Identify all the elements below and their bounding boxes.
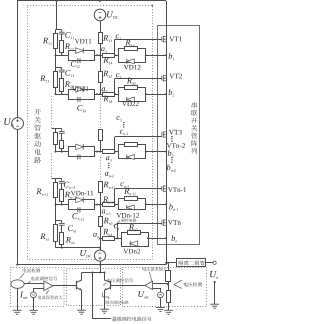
resistor Rn4 box xyxy=(103,237,115,241)
junction dot riser n xyxy=(117,238,119,240)
wire stage n top split xyxy=(56,220,62,222)
junction dot top rail / UDC bus xyxy=(99,0,101,2)
label C12 xyxy=(71,61,80,68)
label R11 xyxy=(43,38,52,45)
wire divider to ground xyxy=(168,302,170,310)
junction dot loop2 exit 2 xyxy=(145,93,147,95)
label b1 xyxy=(169,53,175,60)
bjt right bar xyxy=(110,281,112,290)
label c_n xyxy=(114,224,119,229)
wire Rn2 bottom xyxy=(61,245,63,248)
wire gate riser c3 xyxy=(114,137,116,152)
clamp loop R35/VD32 frame xyxy=(119,145,146,159)
wire b3 to chain xyxy=(146,151,166,153)
label b_n-1 xyxy=(169,204,178,211)
capacitor C22 on loop xyxy=(77,97,79,102)
resistor R12 box xyxy=(60,41,64,53)
wire op1 out to BJT base xyxy=(53,285,77,287)
wire stage n riser xyxy=(55,205,57,221)
mosfet VT3 xyxy=(161,132,163,137)
wire b_n to chain xyxy=(148,238,166,240)
source circle Iset xyxy=(31,292,37,298)
resistor Rn3 box xyxy=(99,217,103,227)
ground divider xyxy=(164,309,173,311)
label VD11 xyxy=(75,39,92,44)
label b_n-2 xyxy=(167,165,176,172)
label Rn4 xyxy=(103,229,112,236)
wire R31 top stub xyxy=(55,129,57,133)
ellipsis dots c-column xyxy=(123,122,124,123)
junction dot R21 bottom xyxy=(55,93,57,95)
label VTn-2 xyxy=(167,143,185,148)
ground bjt left xyxy=(77,309,86,311)
diode VD22 xyxy=(127,97,135,102)
junction dot R11 bottom xyxy=(55,54,57,56)
terminal circle output xyxy=(213,261,216,264)
leader 制动调控电路 xyxy=(102,293,109,300)
wire gate line VTn-1 xyxy=(115,188,162,190)
opamp current error xyxy=(44,281,53,290)
resistor divider upper box xyxy=(166,271,171,282)
wire node line mid stagen-1 xyxy=(94,204,102,206)
wire UDC top to R13 xyxy=(100,21,102,33)
arrow 电压检测 xyxy=(174,280,182,288)
clamp loop VDn2 frame xyxy=(122,233,149,247)
label VDn-12 xyxy=(116,213,138,218)
wire divider mid xyxy=(168,282,170,291)
wire R24 to riser xyxy=(115,94,119,96)
diode loop VD21 frame xyxy=(69,90,95,100)
wire chain to isolation xyxy=(166,245,168,265)
junction dot UDC rail xyxy=(99,264,101,266)
junction dot bn-1 xyxy=(165,203,167,205)
label c2 xyxy=(116,73,121,78)
solid box series switch array xyxy=(158,26,200,245)
label b3 xyxy=(168,150,174,157)
isolation diode box 隔离二极管 xyxy=(177,259,206,267)
label VDn2 xyxy=(123,249,140,254)
junction dot stage n bottom bus xyxy=(99,247,101,249)
ground Uset xyxy=(156,307,165,309)
wire gate line VT1 xyxy=(115,39,162,41)
vertical label 开关管驱动电路 xyxy=(34,109,41,164)
leader 电压误差放大 xyxy=(149,272,151,281)
junction dot b3 xyxy=(165,151,167,153)
mosfet VT2 xyxy=(161,76,163,81)
leader 电流误差放大 xyxy=(46,290,49,294)
junction dot base bus xyxy=(92,272,94,274)
junction dot c3 riser xyxy=(114,151,116,153)
label Rn1 xyxy=(40,234,49,241)
bjt right collector xyxy=(105,273,111,283)
capacitor Cn1 xyxy=(59,222,65,224)
wire cap to Rn-12 xyxy=(61,183,63,190)
wire cap to R32 xyxy=(61,133,63,140)
ground bjt right xyxy=(100,308,109,310)
label Rn3 xyxy=(104,218,113,225)
capacitor C12 on loop xyxy=(77,58,79,63)
wire cap branch stub top stage1 xyxy=(61,30,63,32)
label c3 xyxy=(116,116,121,121)
wire gate riser cn-1 xyxy=(114,189,116,205)
wire cap stub stage n xyxy=(61,221,63,223)
diode VDn-11 xyxy=(76,197,84,203)
junction dot c1 riser xyxy=(114,54,116,56)
wire b1 to chain xyxy=(146,55,166,57)
label c1 xyxy=(116,34,121,39)
label a3 xyxy=(106,156,112,161)
label 电流检测 xyxy=(23,268,40,272)
current sense ellipse xyxy=(11,280,24,289)
resistor R11 box xyxy=(54,34,58,49)
capacitor C11 xyxy=(59,31,65,33)
wire node line left stage1 xyxy=(56,55,69,57)
ellipsis dots VT-column xyxy=(171,136,172,137)
wire sense to op1+ xyxy=(24,283,44,285)
wire op2+ to divider xyxy=(153,283,168,285)
wire Rn1 bottom xyxy=(55,241,57,248)
label Uset xyxy=(138,291,148,298)
junction dot b2 xyxy=(165,93,167,95)
label R(n-1)2 xyxy=(65,192,77,199)
wire R21 top stub xyxy=(55,68,57,72)
label c_n-1 xyxy=(120,182,128,187)
resistor R15 box xyxy=(125,47,138,51)
bjt right emitter xyxy=(105,288,111,310)
clamp loop R15/VD12 frame xyxy=(119,49,146,63)
junction dot divider top xyxy=(167,262,169,264)
wire R11 top stub xyxy=(55,30,57,34)
label VD21 xyxy=(72,86,89,91)
clamp loop R25/VD22 frame xyxy=(119,88,146,102)
wire ellipse to ground xyxy=(17,288,19,310)
label C11 xyxy=(65,32,74,39)
wire gate riser c2 xyxy=(114,78,116,94)
wire op2 out to BJT base xyxy=(111,285,145,287)
diode VDn-12 xyxy=(127,205,135,210)
wire R21 bottom stub xyxy=(55,87,57,94)
wire divider top xyxy=(168,263,170,271)
resistor R21 box xyxy=(54,72,58,88)
junction dot stage n bottom xyxy=(61,247,63,249)
label R22 xyxy=(65,81,74,88)
wire UDC bus a_n-1 to Rn3 xyxy=(100,205,102,216)
dotted ellipsis riser stage3 xyxy=(51,96,53,129)
label VD12 xyxy=(124,65,141,70)
junction dot R32 bottom xyxy=(61,151,63,153)
label C(n-1)1 xyxy=(64,182,76,189)
label R23 xyxy=(103,71,112,78)
wire VT drain chain xyxy=(166,1,168,263)
wire b2 to chain xyxy=(146,94,166,96)
label 电压调控信号 xyxy=(107,278,133,282)
wire UDC bus a1-R23 xyxy=(100,55,102,71)
resistor divider lower box xyxy=(167,291,171,303)
wire R23 to a2 xyxy=(100,82,102,94)
dotted box current control xyxy=(11,268,65,307)
junction dot loop1 exit stage3 xyxy=(96,151,98,153)
resistor R25 box xyxy=(125,86,138,90)
wire R12 bottom stub xyxy=(61,52,63,55)
label R13 xyxy=(103,35,112,42)
label VD22 xyxy=(122,101,139,106)
leader 电流检测 xyxy=(20,273,25,278)
label c_n-2 xyxy=(120,130,128,135)
diode VD32 xyxy=(127,155,135,160)
junction dot collector right xyxy=(104,272,106,274)
label Rn5 xyxy=(129,224,138,231)
wire Uset to ground xyxy=(160,298,162,308)
wire Rn-11 top stub xyxy=(55,179,57,183)
wire Iset to op1- xyxy=(34,289,44,293)
wire stage1 feed from rail xyxy=(56,1,58,30)
wire gate line VT3 xyxy=(115,136,162,138)
wire Rn-14 to riser xyxy=(115,204,119,206)
mosfet VTn-1 xyxy=(161,186,163,191)
label UDC top xyxy=(107,11,118,19)
diode VD21 xyxy=(76,87,84,93)
resistor R35 box xyxy=(125,143,138,147)
ground left rail xyxy=(13,309,22,311)
mosfet VT1 xyxy=(161,37,163,42)
wire isolation out xyxy=(206,262,213,264)
resistor Rn2 box xyxy=(60,233,64,245)
label 电流调控信号 xyxy=(31,276,57,280)
junction dot loop1 exit stage2 xyxy=(96,93,98,95)
wire left input rail lower xyxy=(17,129,19,264)
label VTn-1 xyxy=(168,187,186,192)
wire Rn1 top stub xyxy=(55,221,57,225)
label 调控电路 small xyxy=(121,219,137,223)
dotted ellipsis riser stagen-1 xyxy=(51,154,53,179)
junction dot a1 xyxy=(99,54,101,56)
wire R14 to riser xyxy=(115,55,119,57)
dotted box base drive xyxy=(67,269,121,306)
wire cap branch stub top stagen-1 xyxy=(61,179,63,181)
label 隔离二极管 xyxy=(179,261,205,266)
leader 电压调控信号 xyxy=(103,283,106,286)
wire node line left stage2 xyxy=(56,94,69,96)
wire UDC feed to collector line xyxy=(100,265,102,273)
diode VD12 xyxy=(127,59,135,64)
label C(n-1)2 xyxy=(72,213,84,220)
wire cap branch stub top stage3 xyxy=(61,129,63,131)
ellipsis dots b-column xyxy=(171,157,172,158)
opamp voltage error xyxy=(145,281,153,289)
junction dot R31 bottom xyxy=(55,151,57,153)
wire stage2 top split xyxy=(56,67,62,69)
wire stagen-1 top split xyxy=(52,178,62,180)
diode VDn2 xyxy=(130,241,138,247)
wire stage3 top split xyxy=(52,128,62,130)
junction dot cn-1 riser xyxy=(114,204,116,206)
resistor R14 box xyxy=(103,54,115,58)
label R12 xyxy=(65,43,74,50)
wire cap to R22 xyxy=(61,72,63,79)
wire node line mid stage2 xyxy=(94,94,102,96)
resistor Rn1 box xyxy=(54,225,58,242)
label 电压检测 xyxy=(184,282,202,286)
resistor R23 box xyxy=(99,72,103,83)
resistor R13 box xyxy=(99,33,103,44)
wire top rail xyxy=(17,0,166,2)
junction dot loop1 exit stage1 xyxy=(96,54,98,56)
junction dot R22 bottom xyxy=(61,93,63,95)
label a1 xyxy=(101,47,107,52)
leader 电流调控信号 xyxy=(28,281,31,284)
label R24 xyxy=(103,96,112,103)
ellipsis dots a-column xyxy=(108,163,109,164)
label 电压误差放大 xyxy=(143,267,168,271)
junction dot Rn-11 bottom xyxy=(55,204,57,206)
wire R33 to a3 xyxy=(100,141,102,152)
label 基极调控电路信号 xyxy=(112,317,152,322)
wire node line left stage3 xyxy=(56,151,69,153)
label R21 xyxy=(40,75,49,82)
wire a_n to UDC bottom xyxy=(100,227,102,250)
wire op2- to Uset xyxy=(153,289,161,293)
junction dot loop1 exit stagen-1 xyxy=(96,204,98,206)
diode loop VD31 frame xyxy=(69,147,95,157)
resistor R33 box xyxy=(99,130,103,141)
wire R11 bottom stub xyxy=(55,48,57,55)
wire R22 bottom stub xyxy=(61,91,63,94)
resistor R32 box xyxy=(60,141,64,149)
bjt left emitter xyxy=(77,288,82,311)
wire gate riser c_n xyxy=(117,223,119,238)
label Ua xyxy=(210,271,218,279)
junction dot isolation xyxy=(165,262,167,264)
wire Rn-11 bottom stub xyxy=(55,198,57,205)
resistor Rn-15 box xyxy=(125,197,138,201)
label R(n-1)4 xyxy=(103,197,115,204)
label Iset xyxy=(20,292,27,299)
wire R(n-1)3 to a_n-1 xyxy=(100,193,102,205)
diode VD11 xyxy=(76,48,84,54)
resistor R34 box xyxy=(103,150,115,154)
label a_n-2 xyxy=(105,172,114,177)
leader curve 调控电路 xyxy=(113,220,120,225)
label C21 xyxy=(65,70,74,77)
wire Rn-12 bottom stub xyxy=(61,202,63,205)
wire gate line VT2 xyxy=(115,78,162,80)
label b2 xyxy=(169,89,175,96)
label 制动调控电路 xyxy=(105,301,128,305)
label R25 xyxy=(127,78,136,85)
junction dot loop2 exit n-1 xyxy=(145,203,147,205)
junction dot c2 riser xyxy=(114,93,116,95)
resistor R24 box xyxy=(103,93,115,97)
wire Cn1 to Rn2 xyxy=(61,225,63,232)
label R(n-1)3 xyxy=(103,182,115,189)
voltage source UDC top xyxy=(94,9,106,21)
dotted box voltage control xyxy=(123,268,207,307)
junction dot a2 xyxy=(99,93,101,95)
label Cn1 xyxy=(68,225,77,232)
label a_n xyxy=(93,233,99,238)
label R(n-1)1 xyxy=(36,189,48,196)
junction dot b_n xyxy=(165,237,167,239)
bjt left bar xyxy=(76,281,78,290)
wire left input rail upper xyxy=(17,1,19,118)
junction dot R12 bottom xyxy=(61,54,63,56)
ground Ua xyxy=(210,303,219,305)
wire stage n bottom line xyxy=(56,247,101,249)
wire cap branch stub top stage2 xyxy=(61,68,63,70)
label C22 xyxy=(77,105,86,112)
clamp loop Rn-15/VDn-12 frame xyxy=(119,199,146,210)
wire R31 bottom stub xyxy=(55,145,57,152)
junction dot loop2 exit 1 xyxy=(145,54,147,56)
dotted box switch-tube drive circuit xyxy=(28,6,153,260)
resistor Rn-11 box xyxy=(54,183,58,198)
dotted UDC bus ellipsis a2-R33 xyxy=(100,96,102,130)
wire Ua to ground xyxy=(214,282,216,304)
junction dot driver box corner xyxy=(152,5,154,7)
label VDn-11 xyxy=(71,191,93,196)
junction dot b1 xyxy=(165,54,167,56)
diode loop VDn-11 frame xyxy=(69,200,95,210)
wire node line mid stage1 xyxy=(94,55,102,57)
diode VD31 xyxy=(76,144,84,150)
junction dot collector/UDC xyxy=(99,272,101,274)
bjt left collector xyxy=(77,273,82,283)
resistor Rn-14 box xyxy=(103,203,115,207)
resistor R22 box xyxy=(60,79,64,92)
junction dot rail left xyxy=(16,264,18,266)
wire bottom rail xyxy=(17,264,166,266)
source circle Uset xyxy=(158,292,164,298)
wire stage1 top split xyxy=(56,29,62,31)
wire R13 to a1 xyxy=(100,44,102,56)
wire UDC bottom to rail xyxy=(100,261,102,264)
capacitor Cn-11 xyxy=(59,180,65,182)
label VT1 xyxy=(169,37,182,42)
junction dot Rn-12 bottom xyxy=(61,204,63,206)
voltage source Uin xyxy=(12,118,24,130)
wire collector line xyxy=(82,272,105,274)
ground Iset xyxy=(29,309,38,311)
resistor R(n-1)3 box xyxy=(99,182,103,193)
label Uin xyxy=(4,118,14,126)
wire entry loop n xyxy=(118,238,122,240)
label Rn2 xyxy=(66,237,75,244)
resistor R31 box xyxy=(54,133,58,145)
voltage source UDC bottom xyxy=(94,250,105,261)
capacitor Cn-12 on loop xyxy=(77,207,79,212)
label R15 xyxy=(125,40,134,47)
capacitor C32 on loop xyxy=(77,154,79,159)
mosfet VTn xyxy=(161,220,163,225)
wire stage2 riser xyxy=(55,55,57,67)
wire gate line VTn xyxy=(118,223,162,225)
wire node line mid stage3 xyxy=(94,151,102,153)
junction dot loop n exit xyxy=(147,237,149,239)
terminal dot Ua xyxy=(214,281,216,283)
wire R32 bottom stub xyxy=(61,149,63,152)
dotted UDC bus ellipsis a_n-2 to R(n-1)3 xyxy=(100,157,102,182)
label b_n xyxy=(172,235,178,242)
label UDC bottom xyxy=(80,250,91,258)
junction dot a_n xyxy=(99,238,101,240)
capacitor C21 xyxy=(59,69,65,71)
label R14 xyxy=(103,57,112,64)
wire gate riser c1 xyxy=(114,39,116,55)
junction dot loop2 exit 3 xyxy=(145,151,147,153)
capacitor C31 xyxy=(59,131,65,133)
wire cap to R12 xyxy=(61,34,63,41)
wire node line left stagen-1 xyxy=(56,204,69,206)
